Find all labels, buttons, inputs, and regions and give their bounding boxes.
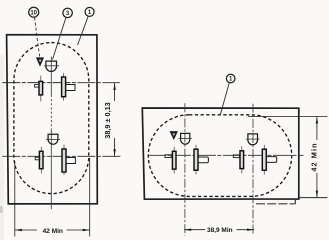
- vertical centerline outlet 1 (right view): [184, 103, 186, 235]
- polarizing triangle outlet A: [37, 58, 44, 66]
- leader from balloon 10 to triangle: [35, 17, 40, 56]
- blade slot right with tab, outlet B: [62, 145, 75, 176]
- blade slot right with tab, outlet 1 (right view): [194, 145, 208, 175]
- dimension text 42 Min (left view): [43, 228, 63, 235]
- outline rectangle (right view): [142, 108, 298, 199]
- svg-text:38,9 ± 0,13: 38,9 ± 0,13: [103, 102, 112, 138]
- vertical centerline (left view): [50, 57, 52, 210]
- scan artifact doubled bottom edge (right view): [256, 199, 295, 205]
- bottom edge extension to dimension (right view): [299, 197, 328, 199]
- horizontal centerline outlet A (left view): [2, 82, 119, 84]
- svg-text:10: 10: [30, 10, 37, 16]
- blade slot right with tab, outlet A: [62, 73, 75, 100]
- vertical dimension line 38,9 +/- 0,13 (left view): [113, 83, 115, 156]
- balloon 1 (left view): [85, 7, 94, 16]
- polarizing triangle outlet 1 (right view): [170, 132, 177, 140]
- vertical dimension 42 Min (right view): extension line top: [248, 116, 327, 118]
- bottom dimension 42 Min (left view) extension lines: [15, 158, 90, 237]
- balloon 3: [63, 8, 72, 17]
- blade slot left, outlet B: [35, 147, 43, 174]
- scan shading left edge: [0, 55, 4, 240]
- ground slot (cup) outlet 1 (right view): [179, 133, 192, 144]
- leader from balloon 1 to dashed cutout (right view): [220, 83, 229, 115]
- leader from balloon 3 to ground slot: [53, 17, 67, 59]
- dashed stadium cutout (right view): [148, 115, 291, 197]
- blade slot right with tab, outlet 2 (right view): [262, 145, 276, 175]
- leader from balloon 1 to dashed cutout: [78, 16, 89, 45]
- dashed stadium cutout (left view): [14, 43, 89, 194]
- horizontal centerline outlet B (left view): [2, 155, 120, 157]
- bottom dimension 38,9 Min (right view): dimension line and arrows: [184, 229, 254, 231]
- balloon 1 (right view): [226, 74, 235, 83]
- ground slot (cup) outlet A: [44, 61, 59, 71]
- horizontal centerline (right view): [148, 154, 304, 156]
- dimension text 38,9 Min (right view): [207, 227, 233, 234]
- outline rectangle (left view): [7, 35, 98, 204]
- blade slot left, outlet 2 (right view): [233, 146, 243, 173]
- balloon 10: [29, 7, 39, 17]
- svg-text:42 Min: 42 Min: [310, 142, 319, 171]
- blade slot left, outlet 1 (right view): [165, 147, 176, 174]
- vertical dimension 42 Min (right view): line and arrows: [316, 117, 318, 198]
- svg-text:42 Min: 42 Min: [43, 228, 63, 235]
- dimension text 42 Min (right view, rotated): [310, 142, 319, 171]
- svg-text:3: 3: [66, 11, 70, 17]
- svg-text:38,9 Min: 38,9 Min: [207, 227, 233, 234]
- vertical centerline outlet 2 (right view): [252, 104, 254, 236]
- bottom dimension 42 Min (left view) dimension line and arrows: [15, 229, 90, 231]
- svg-text:1: 1: [88, 10, 92, 16]
- dimension text 38,9 +/- 0,13 (rotated): [103, 102, 112, 138]
- ground slot (cup) outlet 2 (right view): [246, 134, 260, 145]
- blade slot left, outlet A: [35, 76, 43, 102]
- ground slot (cup) outlet B: [46, 134, 60, 144]
